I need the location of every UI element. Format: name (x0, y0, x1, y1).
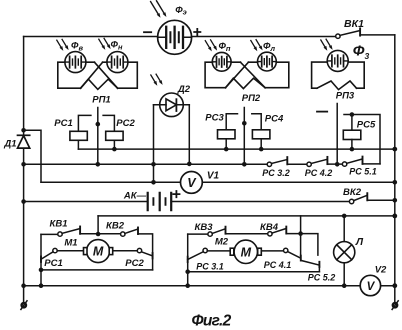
svg-text:АК—: АК— (123, 191, 147, 202)
svg-text:Фиг.2: Фиг.2 (191, 313, 231, 330)
svg-text:Фп: Фп (218, 41, 230, 53)
light arrows into Фз (321, 39, 333, 51)
plus sign of АК (173, 191, 179, 197)
contact РС1 (motor) (41, 248, 57, 261)
relay coil РС3 (218, 114, 238, 149)
wire left rail (23, 37, 25, 303)
wire Д2 right leg (188, 105, 190, 164)
svg-text:РС2: РС2 (125, 258, 144, 269)
svg-text:Ф3: Ф3 (353, 43, 370, 62)
wire КВ3 left drop (187, 234, 189, 286)
terminal bottom right (392, 301, 398, 310)
wire right rail (394, 35, 396, 303)
wire М1 bottom rail (41, 269, 153, 271)
svg-text:РС3: РС3 (205, 113, 224, 124)
wire main bus with contacts (24, 163, 268, 165)
light arrows into ФЭ (151, 1, 167, 18)
plus sign right of ФЭ (194, 29, 200, 35)
lamp Л (334, 242, 355, 263)
wire РП1 coil tail (97, 108, 99, 165)
svg-text:Фэ: Фэ (175, 5, 187, 16)
motor М1 (57, 240, 137, 263)
light arrows into Фв (57, 39, 69, 51)
battery АК (148, 193, 172, 210)
svg-text:Фл: Фл (263, 41, 275, 53)
svg-text:КВ2: КВ2 (106, 221, 125, 232)
svg-text:РС5: РС5 (357, 120, 376, 131)
light arrows into Фн (99, 38, 111, 50)
svg-text:РС 3.1: РС 3.1 (196, 262, 224, 272)
wire РП2 coil tail (243, 108, 245, 165)
wire bottom bus (24, 285, 395, 287)
relay coil РС5 (343, 115, 361, 150)
wire Д1 bypass branch (24, 130, 41, 182)
relay РП2 windings (crossed) (205, 62, 289, 88)
wire lamp branch (343, 216, 345, 286)
contact РС5.1 (342, 157, 380, 167)
svg-text:Д2: Д2 (177, 84, 191, 95)
wire КВ3-КВ4 row (188, 234, 318, 256)
svg-text:РС2: РС2 (116, 118, 135, 129)
svg-text:М2: М2 (215, 237, 229, 248)
svg-text:Л: Л (355, 236, 364, 248)
svg-text:РС 4.2: РС 4.2 (305, 168, 333, 178)
svg-text:РП2: РП2 (242, 93, 261, 104)
relay coil РС4 (252, 114, 270, 149)
wire РП3 coil tail (336, 104, 338, 165)
svg-text:ВК1: ВК1 (344, 18, 364, 30)
diode Д1 (18, 135, 30, 148)
svg-text:РС 3.2: РС 3.2 (262, 168, 290, 178)
light arrows into Д2 (151, 74, 163, 86)
voltmeter V1 (181, 172, 203, 194)
svg-text:ВК2: ВК2 (343, 187, 362, 198)
minus sign left of ФЭ (144, 31, 151, 33)
wire coil return rail (78, 148, 394, 150)
relay coil РС1 (70, 115, 91, 149)
wire М2 feed drop (300, 216, 302, 234)
contact РС4.2 (307, 157, 343, 167)
svg-text:РС4: РС4 (265, 114, 284, 125)
svg-text:М: М (93, 245, 104, 259)
photocell ФЭ (158, 20, 192, 54)
wire top bus left of photocell (24, 36, 158, 38)
switch ВК1 (336, 28, 395, 38)
motor М2 (207, 240, 283, 263)
svg-text:РП1: РП1 (92, 95, 110, 106)
svg-text:М1: М1 (64, 238, 77, 249)
svg-text:КВ4: КВ4 (260, 222, 279, 233)
svg-text:РС1: РС1 (44, 258, 62, 269)
switch КВ3 (208, 227, 226, 237)
contact РС5.2 (301, 260, 320, 271)
switch ВК2 (349, 193, 394, 204)
relay РП3 winding (312, 62, 365, 90)
svg-text:РС 4.1: РС 4.1 (264, 260, 292, 270)
switch КВ4 (268, 227, 287, 236)
svg-text:Д1: Д1 (3, 139, 16, 150)
wire РС5 top branch (344, 115, 380, 164)
svg-text:Фв: Фв (71, 41, 83, 53)
svg-text:РС 5.1: РС 5.1 (349, 167, 377, 177)
wire КВ1 left drop (40, 234, 42, 285)
switch КВ1 (58, 227, 80, 237)
svg-text:КВ1: КВ1 (50, 219, 68, 230)
diode Д2 (154, 93, 190, 117)
svg-text:М: М (241, 245, 252, 259)
photoresistor Фн (107, 52, 128, 73)
svg-text:РС 5.2: РС 5.2 (308, 273, 336, 283)
photoresistor Фп (212, 52, 231, 71)
wire М1 feed drop (97, 216, 99, 234)
contact РС4.1 (motor) (284, 248, 301, 260)
photoresistor Фз (327, 50, 348, 71)
voltmeter V2 (360, 275, 380, 295)
wire М2 bottom rail (188, 271, 320, 273)
wire КВ1-КВ2 row (41, 234, 153, 270)
svg-text:V2: V2 (375, 265, 387, 276)
wire motor supply rail (98, 215, 395, 217)
terminal bottom left (21, 301, 27, 310)
wire top bus right of photocell (192, 36, 336, 38)
contact РС3.2 (267, 157, 307, 166)
light arrows into Фп (205, 40, 217, 52)
switch КВ2 (121, 228, 138, 237)
contact РС3.1 (motor) (188, 248, 208, 262)
svg-text:V: V (367, 281, 376, 293)
svg-text:РС1: РС1 (54, 118, 72, 129)
light arrows into Фл (251, 40, 263, 52)
photoresistor Фл (258, 52, 277, 71)
photoresistor Фв (65, 52, 86, 73)
relay РП1 windings (crossed) (58, 62, 138, 89)
svg-text:РП3: РП3 (336, 91, 355, 102)
contact РС2 (motor) (137, 248, 152, 258)
wire Д2 left leg (153, 105, 155, 183)
minus sign near РП3 tail (317, 111, 327, 113)
wire measuring bus V1 (41, 181, 395, 183)
svg-text:Фн: Фн (111, 40, 123, 52)
wire battery bus (24, 201, 350, 203)
svg-text:КВ3: КВ3 (195, 222, 214, 233)
relay coil РС2 (103, 115, 123, 149)
svg-text:V1: V1 (207, 171, 220, 182)
